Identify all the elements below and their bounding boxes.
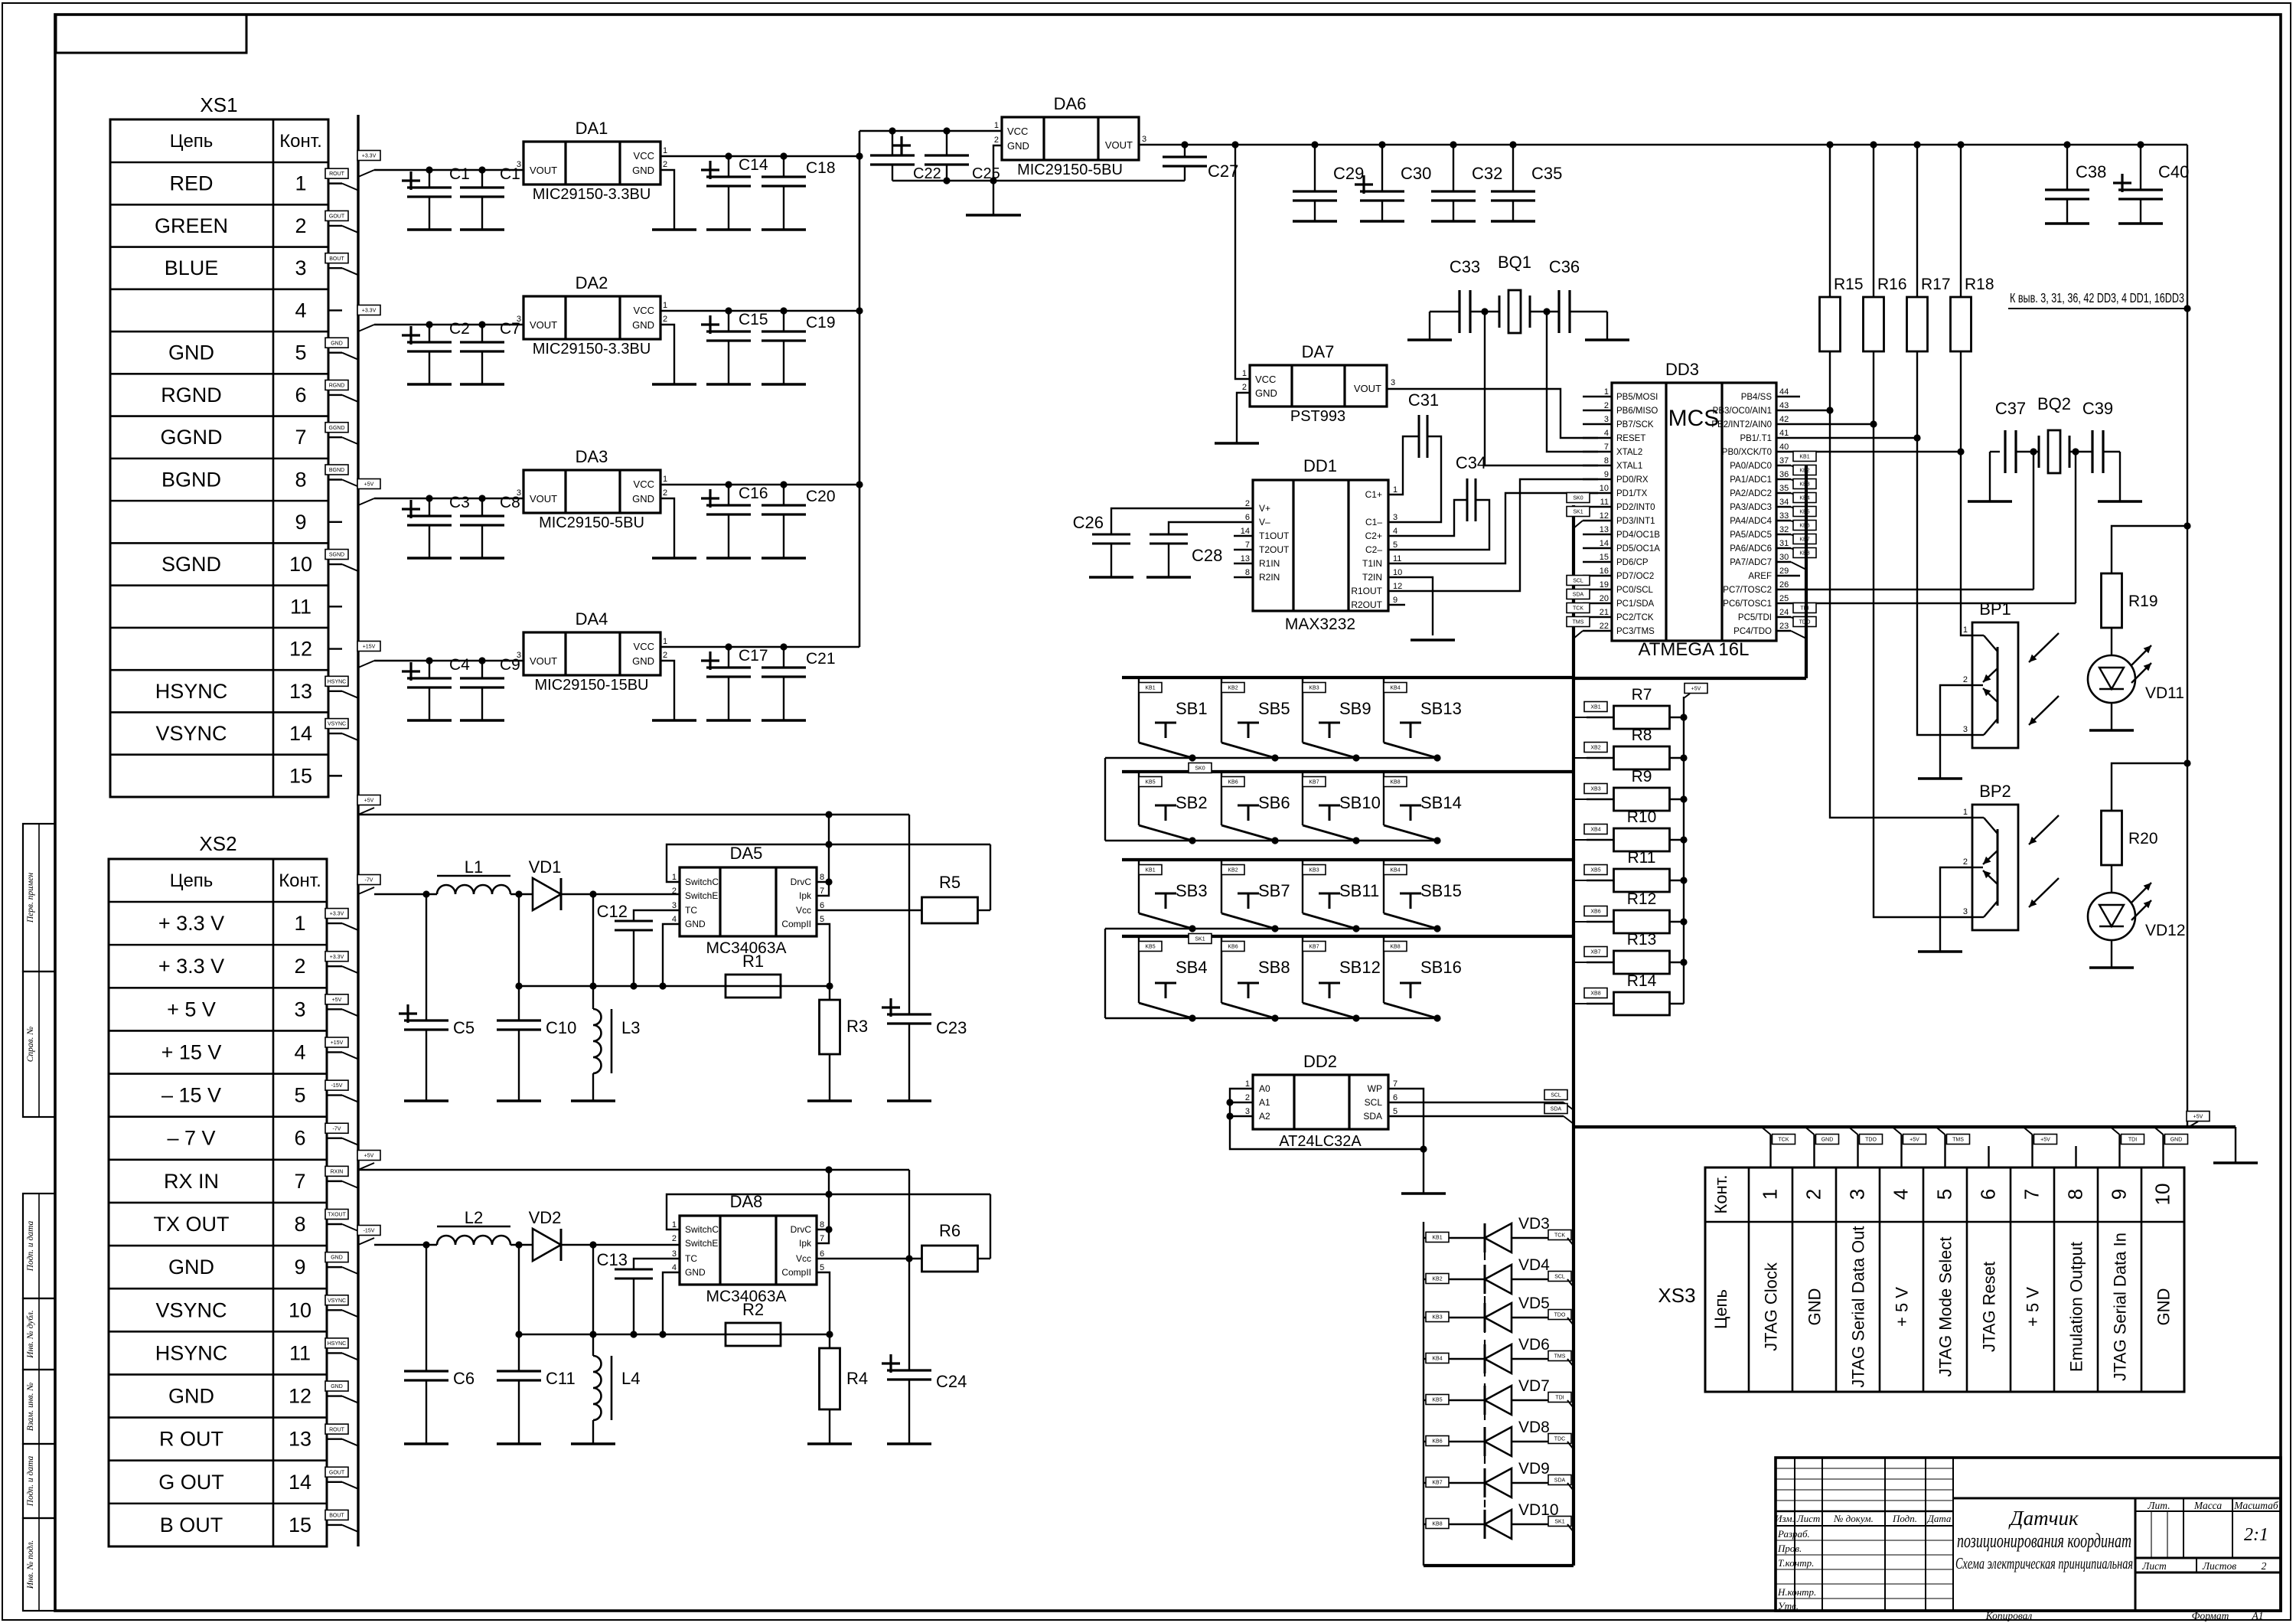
wire pin 7	[1234, 549, 1253, 550]
svg-text:MIC29150-3.3BU: MIC29150-3.3BU	[533, 341, 651, 358]
wire feedback DA8	[519, 1334, 830, 1335]
svg-text:AREF: AREF	[1748, 572, 1772, 581]
svg-text:C21: C21	[806, 650, 836, 668]
svg-text:DA7: DA7	[1302, 342, 1335, 361]
svg-text:13: 13	[289, 680, 312, 703]
diode VD10	[1424, 1523, 1485, 1525]
svg-text:Разраб.: Разраб.	[1777, 1528, 1810, 1540]
svg-text:VD8: VD8	[1518, 1419, 1550, 1436]
wire XS3 pin 3	[1857, 1135, 1858, 1167]
svg-text:34: 34	[1779, 498, 1789, 507]
svg-text:SB9: SB9	[1339, 699, 1371, 718]
wire XS1 pin 11	[328, 606, 342, 607]
svg-text:VOUT: VOUT	[530, 319, 557, 331]
wire PC7 TOSC2	[1776, 589, 2033, 590]
switch KB4	[1383, 678, 1384, 743]
svg-text:XS3: XS3	[1658, 1284, 1695, 1307]
svg-text:SB14: SB14	[1420, 793, 1462, 812]
wire	[2112, 763, 2187, 811]
ground	[407, 557, 452, 559]
svg-text:11: 11	[290, 595, 311, 618]
svg-text:40: 40	[1779, 442, 1789, 452]
wire +3.3V input	[358, 170, 374, 177]
regulator DA2	[523, 296, 660, 339]
switch KB1	[1138, 678, 1140, 743]
svg-text:VOUT: VOUT	[530, 655, 557, 667]
svg-text:TDC: TDC	[1554, 1437, 1565, 1442]
svg-text:1: 1	[294, 912, 305, 935]
svg-text:C36: C36	[1549, 257, 1580, 276]
svg-text:C23: C23	[936, 1018, 967, 1037]
svg-text:30: 30	[1779, 553, 1789, 562]
capacitor C6	[426, 1245, 427, 1371]
svg-text:DD1: DD1	[1303, 456, 1337, 475]
wire xtal nodes	[1481, 308, 1488, 315]
wire DA6 gnd	[993, 145, 1002, 181]
wire PB2 to R16	[1776, 423, 1874, 425]
svg-text:PA1/ADC1: PA1/ADC1	[1730, 475, 1772, 485]
svg-text:Н.контр.: Н.контр.	[1777, 1586, 1816, 1598]
wire XS2 pin 1	[327, 923, 342, 924]
svg-text:VCC: VCC	[634, 305, 654, 316]
wire XS3 pin 10	[2162, 1135, 2164, 1167]
svg-text:К выв. 3, 31, 36, 42 DD3, 4 DD: К выв. 3, 31, 36, 42 DD3, 4 DD1, 16DD3	[2010, 290, 2184, 305]
capacitor C10	[518, 894, 520, 986]
svg-text:+5V: +5V	[2193, 1115, 2203, 1120]
svg-text:TMS: TMS	[1573, 620, 1584, 625]
svg-text:T2IN: T2IN	[1362, 572, 1382, 583]
svg-text:XB4: XB4	[1590, 828, 1600, 833]
svg-text:Справ. №: Справ. №	[26, 1027, 35, 1063]
capacitor C32	[1453, 145, 1454, 191]
wire SK1 loop	[1104, 929, 1106, 1018]
wire CompII DA8	[817, 1272, 830, 1334]
svg-text:V+: V+	[1259, 503, 1270, 514]
capacitor C23	[908, 1014, 910, 1015]
svg-text:R7: R7	[1632, 686, 1652, 704]
svg-text:24: 24	[1779, 608, 1789, 617]
wire XS3 pin 6	[1988, 1146, 1989, 1167]
svg-text:BOUT: BOUT	[329, 256, 344, 262]
svg-text:37: 37	[1779, 456, 1789, 465]
svg-text:7: 7	[2020, 1189, 2043, 1200]
wire -15V input	[358, 1238, 374, 1245]
svg-text:6: 6	[295, 384, 306, 407]
svg-text:R11: R11	[1628, 849, 1656, 867]
led VD12	[2111, 865, 2112, 893]
svg-text:RGND: RGND	[161, 384, 222, 407]
wire DA2 GND	[660, 325, 674, 384]
switch KB5	[1138, 772, 1140, 825]
switch KB5	[1138, 936, 1140, 1003]
svg-text:10: 10	[289, 553, 312, 576]
ground	[1411, 638, 1455, 641]
svg-text:4: 4	[294, 1040, 305, 1063]
svg-text:GND: GND	[685, 1267, 706, 1278]
svg-text:3: 3	[1963, 725, 1968, 734]
svg-text:12: 12	[289, 638, 312, 661]
wire DrvC	[817, 815, 829, 882]
svg-text:4: 4	[295, 299, 306, 322]
switch KB1	[1138, 860, 1140, 913]
wire XS1 pin 14	[328, 733, 342, 734]
svg-text:1: 1	[1242, 369, 1247, 378]
inductor L1	[437, 885, 510, 894]
svg-text:Лист: Лист	[1796, 1513, 1820, 1524]
ic DA8 MC34063A	[680, 1216, 817, 1285]
wire XS1 pin 2	[328, 225, 342, 227]
capacitor C30	[1381, 145, 1383, 191]
diode VD8	[1424, 1441, 1485, 1442]
svg-text:KB1: KB1	[1432, 1236, 1442, 1241]
svg-text:VD9: VD9	[1518, 1460, 1550, 1478]
svg-text:GND: GND	[168, 1385, 214, 1408]
svg-text:GND: GND	[331, 1256, 343, 1261]
svg-text:9: 9	[1393, 596, 1397, 605]
wire XS2 pin 3	[327, 1008, 342, 1010]
svg-text:KB5: KB5	[1145, 945, 1155, 950]
svg-text:1: 1	[1393, 485, 1397, 495]
svg-text:GND: GND	[2154, 1288, 2174, 1326]
svg-text:+5V: +5V	[1910, 1138, 1919, 1143]
svg-text:JTAG Serial Data Out: JTAG Serial Data Out	[1849, 1226, 1868, 1387]
svg-text:5: 5	[820, 1263, 824, 1272]
svg-text:5: 5	[294, 1084, 305, 1107]
svg-text:MIC29150-5BU: MIC29150-5BU	[539, 514, 644, 531]
capacitor C19	[783, 311, 784, 331]
svg-text:DA5: DA5	[730, 844, 763, 863]
svg-text:C40: C40	[2158, 162, 2189, 181]
photodetector BP2	[1972, 805, 2018, 930]
wire XS2 pin 5	[327, 1094, 342, 1096]
svg-text:SB15: SB15	[1420, 881, 1462, 900]
wire XS2 pin 15	[327, 1524, 342, 1526]
svg-text:PA2/ADC2: PA2/ADC2	[1730, 489, 1772, 498]
svg-text:SDA: SDA	[1551, 1107, 1562, 1112]
svg-text:SB13: SB13	[1420, 699, 1462, 718]
diode VD7	[1424, 1399, 1485, 1401]
svg-text:GND: GND	[632, 655, 654, 667]
svg-text:10: 10	[1393, 568, 1402, 577]
svg-text:BGND: BGND	[161, 469, 221, 491]
svg-text:TDI: TDI	[1555, 1396, 1564, 1401]
svg-text:5: 5	[1393, 540, 1397, 550]
svg-text:14: 14	[289, 1471, 311, 1494]
capacitor C1	[429, 170, 430, 188]
resistor R4	[829, 1334, 830, 1348]
wire XS2 pin 7	[327, 1181, 342, 1182]
svg-text:SwitchE: SwitchE	[685, 890, 718, 901]
svg-text:10: 10	[2151, 1184, 2174, 1206]
ground	[1918, 777, 1962, 779]
svg-text:JTAG Mode Select: JTAG Mode Select	[1936, 1237, 1955, 1377]
wire DD2 WP	[1388, 1089, 1424, 1194]
bus horizontal	[1574, 677, 1806, 680]
svg-text:Взам. инв. №: Взам. инв. №	[26, 1383, 35, 1432]
svg-text:KB4: KB4	[1390, 868, 1400, 874]
svg-text:C12: C12	[597, 902, 628, 921]
capacitor C24	[908, 1370, 910, 1371]
resistor R20	[2102, 811, 2122, 865]
svg-text:RGND: RGND	[329, 384, 345, 389]
svg-text:31: 31	[1779, 539, 1789, 548]
svg-text:2: 2	[1802, 1189, 1825, 1200]
svg-text:5: 5	[820, 915, 824, 924]
regulator DA3	[523, 470, 660, 513]
svg-text:35: 35	[1779, 484, 1789, 493]
svg-text:C9: C9	[500, 656, 520, 674]
wire xtal1	[1430, 311, 1459, 312]
wire pin 14	[1234, 535, 1253, 537]
svg-text:C1+: C1+	[1365, 489, 1382, 500]
net flag +5V	[2187, 1112, 2210, 1122]
resistor R1	[726, 975, 781, 998]
svg-text:AT24LC32A: AT24LC32A	[1279, 1133, 1362, 1150]
wire tosc	[1990, 451, 2000, 452]
wire DD3 pin 14	[1583, 547, 1612, 549]
svg-text:Лист: Лист	[2141, 1560, 2167, 1572]
svg-text:C37: C37	[1995, 399, 2026, 418]
wire DA4 VCC	[660, 646, 859, 648]
svg-text:R10: R10	[1627, 808, 1657, 826]
wire BP1 pin1	[1961, 452, 1972, 635]
svg-text:R2: R2	[742, 1300, 764, 1319]
wire CompII	[817, 924, 830, 986]
svg-text:1: 1	[1963, 808, 1968, 817]
svg-text:2: 2	[663, 488, 667, 498]
wire XS2 pin 11	[327, 1352, 342, 1354]
svg-text:SB4: SB4	[1176, 958, 1208, 977]
svg-text:G OUT: G OUT	[158, 1471, 224, 1494]
svg-text:VD1: VD1	[529, 857, 562, 877]
svg-text:R15: R15	[1834, 276, 1864, 293]
wire XS3 pin 4	[1900, 1135, 1902, 1167]
wire SwitchC loop	[667, 844, 990, 882]
svg-text:15: 15	[1600, 553, 1609, 562]
capacitor C39	[2069, 451, 2092, 452]
resistor R6	[922, 1246, 978, 1272]
svg-text:позиционирования координат: позиционирования координат	[1957, 1530, 2131, 1552]
svg-text:GND: GND	[685, 919, 706, 929]
svg-text:T1OUT: T1OUT	[1259, 531, 1290, 541]
svg-text:KB6: KB6	[1228, 780, 1238, 785]
svg-text:PD5/OC1A: PD5/OC1A	[1616, 544, 1660, 554]
svg-text:C2+: C2+	[1365, 531, 1382, 541]
wire XS2 pin 13	[327, 1438, 342, 1439]
svg-text:Ipk: Ipk	[799, 890, 812, 901]
svg-text:Схема электрическая принципиал: Схема электрическая принципиальная	[1955, 1554, 2133, 1572]
wire DD3 pin 3	[1583, 423, 1612, 425]
svg-text:L2: L2	[465, 1208, 483, 1227]
svg-text:10: 10	[1600, 484, 1609, 493]
wire DD3 pin 11	[1583, 506, 1612, 508]
switch KB7	[1302, 772, 1303, 825]
wire XS2 pin 9	[327, 1266, 342, 1268]
svg-text:А1: А1	[2252, 1610, 2264, 1621]
svg-text:MIC29150-15BU: MIC29150-15BU	[535, 677, 649, 694]
svg-text:C35: C35	[1531, 164, 1562, 183]
wire PC6 TOSC1	[1776, 603, 2076, 604]
capacitor C7	[481, 325, 483, 342]
switch KB2	[1221, 678, 1222, 743]
svg-text:C24: C24	[936, 1372, 967, 1391]
svg-text:-7V: -7V	[333, 1126, 341, 1132]
svg-text:GND: GND	[632, 319, 654, 331]
svg-text:PB6/MISO: PB6/MISO	[1616, 407, 1658, 416]
resistor R19	[2102, 573, 2122, 628]
svg-text:2: 2	[672, 887, 677, 896]
ground	[1293, 220, 1337, 222]
svg-text:KB4: KB4	[1432, 1357, 1442, 1362]
svg-text:11: 11	[1600, 498, 1609, 507]
wire BP2 pin1	[1830, 410, 1972, 818]
wire SDA	[1388, 1115, 1564, 1117]
ground	[887, 1442, 931, 1445]
svg-text:VD11: VD11	[2145, 684, 2184, 702]
svg-text:C32: C32	[1472, 164, 1502, 183]
svg-text:1: 1	[1759, 1189, 1782, 1200]
svg-text:KB2: KB2	[1432, 1277, 1442, 1282]
svg-text:Конт.: Конт.	[279, 131, 322, 152]
svg-text:Изм.: Изм.	[1774, 1513, 1795, 1524]
capacitor C18	[783, 156, 784, 177]
svg-text:Лит.: Лит.	[2147, 1500, 2170, 1511]
svg-text:+ 5 V: + 5 V	[1893, 1287, 1912, 1327]
svg-text:4: 4	[672, 1263, 677, 1272]
svg-text:+15V: +15V	[331, 1040, 344, 1046]
svg-text:25: 25	[1779, 594, 1789, 603]
svg-text:SK0: SK0	[1573, 496, 1583, 501]
svg-text:L4: L4	[621, 1369, 640, 1388]
ground	[1401, 1192, 1446, 1194]
photodetector BP1	[1972, 622, 2018, 748]
wire DD3 pin 9	[1583, 478, 1612, 480]
svg-text:C30: C30	[1401, 164, 1431, 183]
svg-text:C16: C16	[739, 485, 768, 502]
svg-text:43: 43	[1779, 401, 1789, 410]
wire +3.3V input	[358, 325, 374, 331]
wire R2OUT stub	[1388, 604, 1405, 606]
ground	[652, 719, 696, 721]
svg-text:KB3: KB3	[1432, 1315, 1442, 1321]
wire diode column bottom	[1424, 1564, 1574, 1567]
capacitor C25	[946, 131, 947, 155]
switch KB8	[1383, 772, 1384, 825]
svg-text:-15V: -15V	[364, 1229, 375, 1234]
svg-text:3: 3	[294, 998, 305, 1020]
svg-text:6: 6	[820, 1249, 824, 1259]
inductor L3	[592, 894, 594, 1009]
svg-text:Дата: Дата	[1926, 1513, 1952, 1524]
wire rail to C24	[908, 1170, 910, 1370]
svg-text:RED: RED	[169, 172, 213, 195]
switch KB3	[1302, 860, 1303, 913]
svg-text:TCK: TCK	[1779, 1138, 1789, 1143]
svg-text:+ 3.3 V: + 3.3 V	[158, 955, 224, 978]
svg-text:12: 12	[1393, 582, 1402, 591]
svg-text:C7: C7	[500, 320, 520, 338]
svg-text:GND: GND	[1007, 140, 1029, 152]
svg-text:KB2: KB2	[1228, 686, 1238, 691]
capacitor C12	[634, 910, 680, 921]
svg-text:2: 2	[2262, 1560, 2267, 1572]
svg-text:RESET: RESET	[1616, 434, 1645, 443]
net bus vertical	[357, 115, 359, 1546]
svg-text:HSYNC: HSYNC	[155, 680, 228, 703]
svg-text:Листов: Листов	[2202, 1560, 2236, 1572]
svg-text:DA4: DA4	[576, 609, 608, 629]
svg-text:C34: C34	[1456, 453, 1486, 472]
svg-text:+5V: +5V	[364, 482, 374, 488]
side stamp boxes	[23, 824, 55, 972]
svg-text:Датчик: Датчик	[2007, 1507, 2079, 1530]
svg-text:19: 19	[1600, 580, 1609, 589]
svg-text:VSYNC: VSYNC	[155, 1298, 227, 1321]
svg-text:Подп. и дата: Подп. и дата	[26, 1455, 35, 1507]
svg-text:3: 3	[295, 256, 306, 279]
svg-text:A0: A0	[1259, 1083, 1270, 1094]
svg-text:GOUT: GOUT	[329, 214, 345, 220]
svg-text:SCL: SCL	[1554, 1275, 1565, 1280]
svg-text:C2–: C2–	[1365, 544, 1382, 555]
svg-text:Масштаб: Масштаб	[2233, 1500, 2279, 1511]
wire +5V rail	[1139, 144, 2187, 145]
svg-text:SK0: SK0	[1195, 766, 1205, 772]
wire PA7 KB8	[1776, 561, 1791, 563]
svg-text:4: 4	[1604, 429, 1609, 438]
svg-text:XB7: XB7	[1590, 950, 1600, 955]
wire DA7 gnd	[1237, 393, 1250, 443]
net flag SCL	[1574, 589, 1583, 597]
svg-text:12: 12	[289, 1385, 311, 1408]
svg-text:VCC: VCC	[634, 478, 654, 490]
svg-text:T1IN: T1IN	[1362, 558, 1382, 569]
ground	[404, 1442, 448, 1445]
crystal BQ2	[2016, 451, 2039, 452]
svg-text:– 15 V: – 15 V	[161, 1084, 221, 1107]
svg-text:VCC: VCC	[634, 641, 654, 652]
svg-text:SB5: SB5	[1258, 699, 1290, 718]
svg-text:VSYNC: VSYNC	[328, 1298, 346, 1304]
svg-text:GND: GND	[1805, 1288, 1825, 1326]
svg-text:SwitchC: SwitchC	[685, 1224, 719, 1235]
svg-text:KB8: KB8	[1390, 780, 1400, 785]
svg-text:C13: C13	[597, 1250, 628, 1269]
ground	[706, 557, 751, 559]
wire	[561, 1244, 680, 1246]
svg-text:XS1: XS1	[200, 93, 237, 116]
svg-text:TC: TC	[685, 905, 697, 916]
svg-text:R1IN: R1IN	[1259, 558, 1280, 569]
svg-text:PB5/MOSI: PB5/MOSI	[1616, 393, 1658, 402]
ground	[404, 1099, 448, 1102]
capacitor C31	[1388, 436, 1419, 495]
switch KB7	[1302, 936, 1303, 1003]
led VD11	[2111, 628, 2112, 655]
wire XS3 pin 5	[1944, 1135, 1945, 1167]
wire XS1 pin 10	[328, 563, 342, 565]
svg-text:6: 6	[1977, 1189, 2000, 1200]
svg-text:XTAL2: XTAL2	[1616, 448, 1642, 457]
svg-text:JTAG Serial Data In: JTAG Serial Data In	[2111, 1233, 2130, 1381]
wire XS2 pin 8	[327, 1223, 342, 1225]
svg-text:7: 7	[1245, 540, 1250, 550]
svg-text:26: 26	[1779, 580, 1789, 589]
svg-text:2: 2	[1963, 857, 1968, 867]
svg-text:R2OUT: R2OUT	[1351, 599, 1382, 610]
svg-text:8: 8	[1604, 456, 1609, 465]
svg-text:ROUT: ROUT	[329, 171, 345, 177]
